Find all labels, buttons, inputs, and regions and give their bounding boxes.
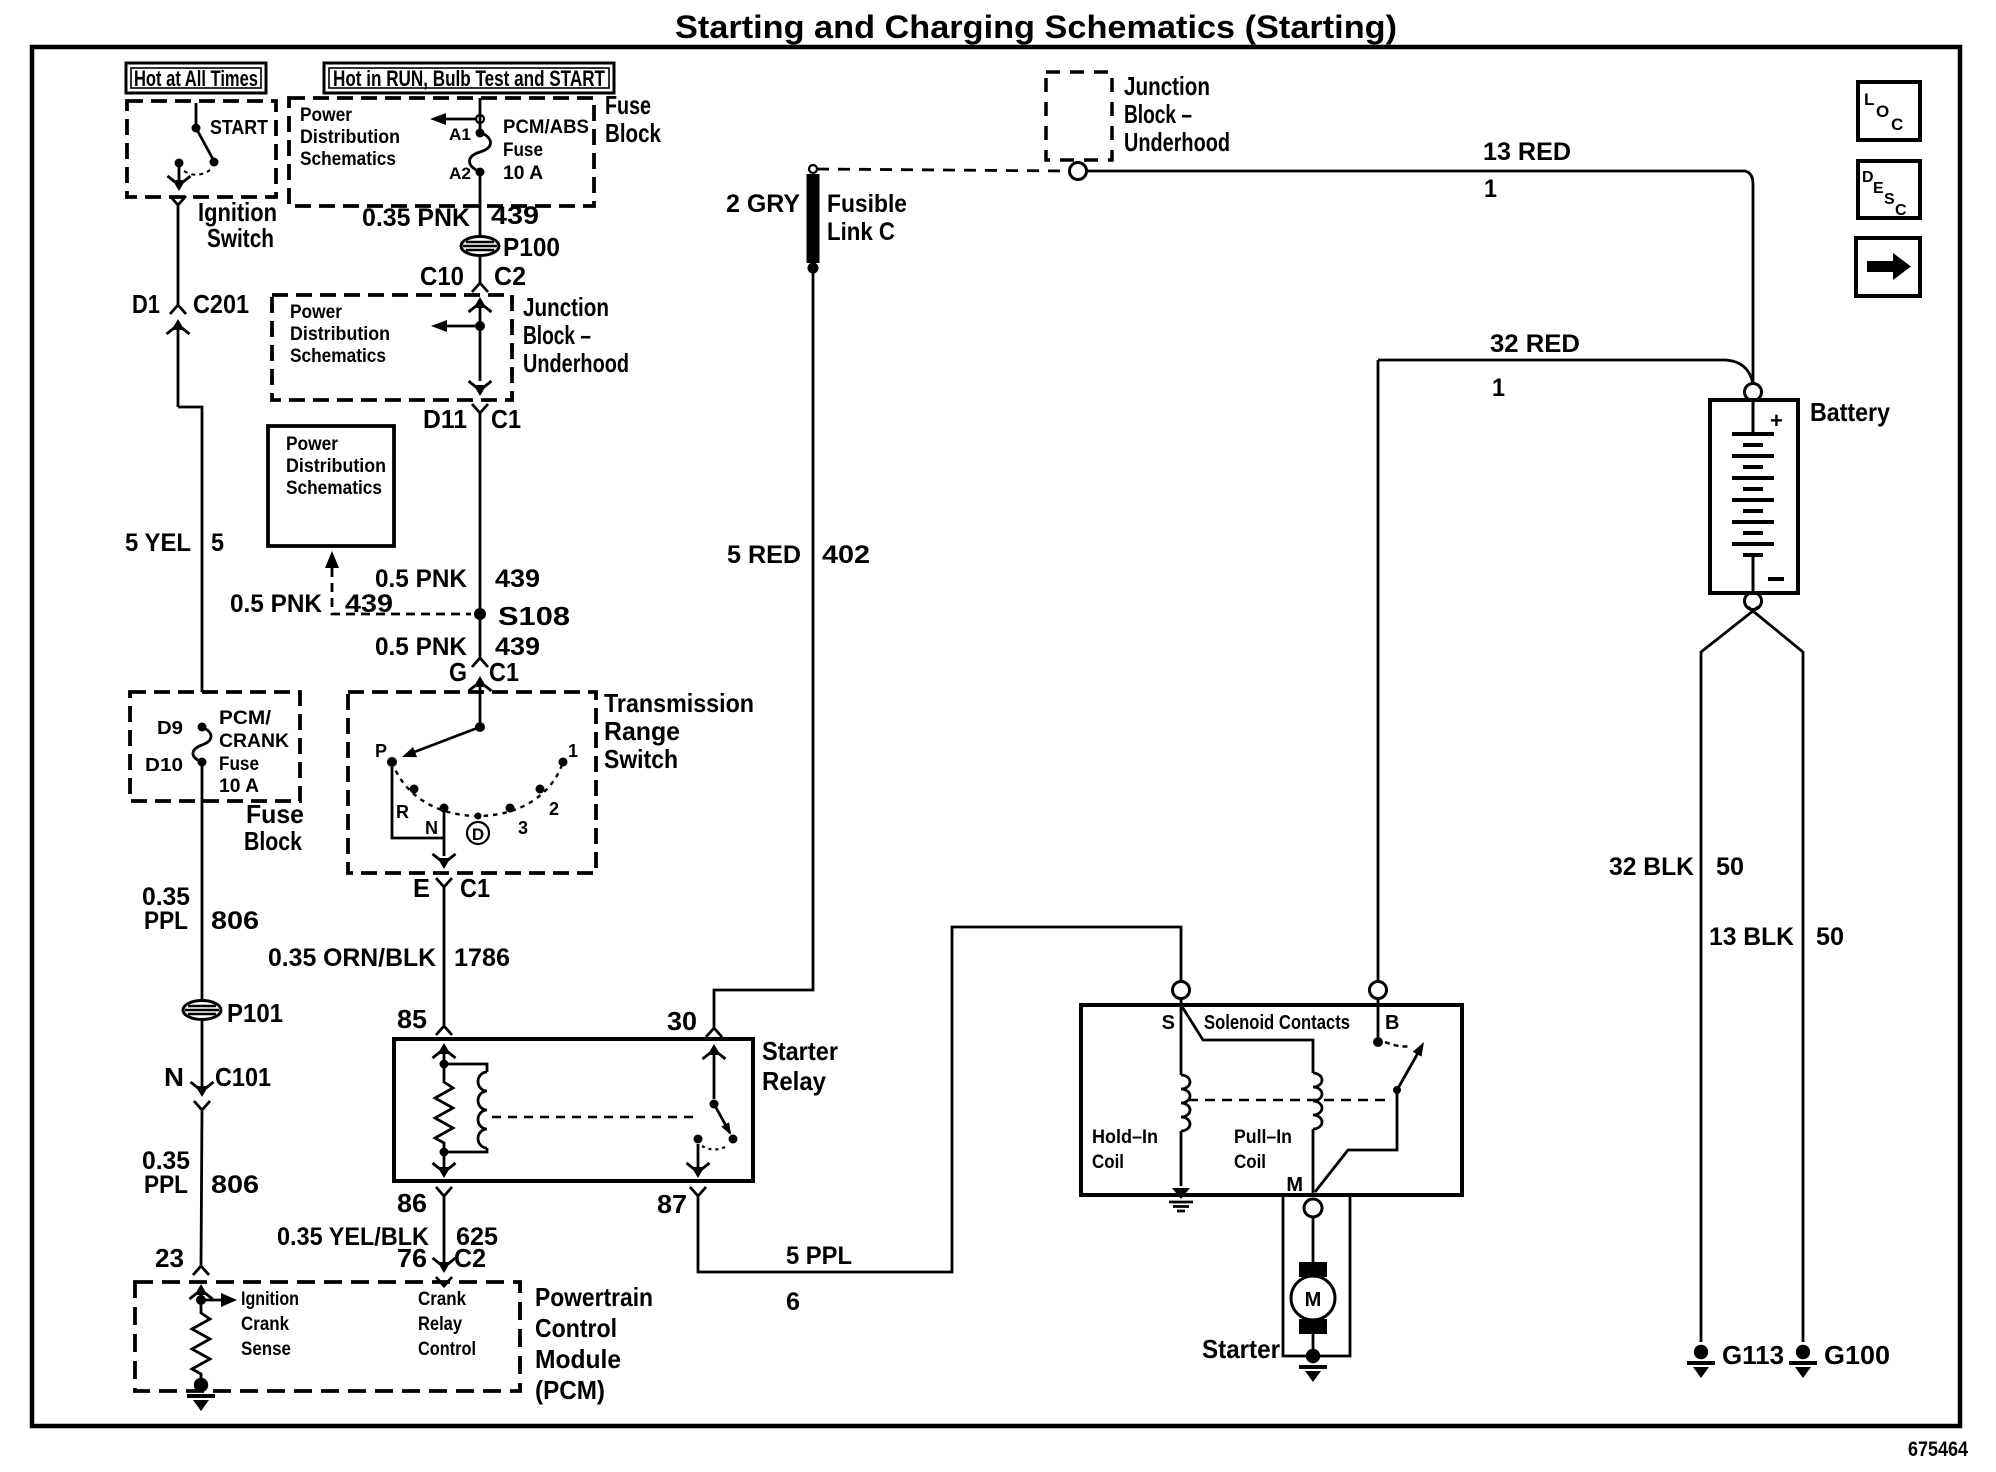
ignition switch output pin arrow bbox=[168, 167, 191, 191]
svg-text:Block: Block bbox=[605, 118, 661, 148]
Junction Block Underhood label (top) bbox=[1124, 71, 1230, 157]
junction block underhood box (left) bbox=[272, 295, 512, 400]
LOC box bbox=[1858, 82, 1920, 140]
ground G100 bbox=[1789, 1340, 1890, 1378]
Ignition Switch label bbox=[198, 197, 277, 253]
svg-text:Coil: Coil bbox=[1234, 1152, 1266, 1173]
svg-text:E: E bbox=[1873, 180, 1884, 197]
svg-text:Control: Control bbox=[535, 1313, 617, 1343]
solenoid contacts box bbox=[1081, 1005, 1462, 1195]
connector C201 bbox=[167, 305, 190, 407]
svg-text:PCM/ABS: PCM/ABS bbox=[503, 117, 589, 138]
solenoid switch B contact bbox=[1373, 1037, 1428, 1094]
svg-text:+: + bbox=[1770, 408, 1783, 433]
svg-text:Block –: Block – bbox=[523, 320, 591, 350]
svg-text:C: C bbox=[1891, 115, 1903, 134]
svg-text:5 PPL: 5 PPL bbox=[786, 1242, 852, 1270]
connector below ignition switch bbox=[170, 196, 186, 205]
svg-text:5 YEL: 5 YEL bbox=[125, 529, 191, 557]
solenoid dashed actuator line bbox=[1188, 1099, 1390, 1101]
svg-text:E: E bbox=[413, 873, 430, 903]
wire P101 down bbox=[201, 1019, 204, 1086]
svg-text:0.35 PNK: 0.35 PNK bbox=[362, 204, 470, 232]
svg-text:Relay: Relay bbox=[762, 1066, 826, 1096]
svg-text:C1: C1 bbox=[460, 873, 490, 903]
connector pin 76 bbox=[433, 1258, 456, 1286]
svg-text:G: G bbox=[449, 657, 467, 687]
dashed branch wire up into solid box bbox=[325, 551, 471, 614]
wire S108 down bbox=[479, 553, 482, 658]
svg-text:Power: Power bbox=[300, 105, 353, 126]
wire 13 RED bbox=[1086, 171, 1753, 384]
terminal M bbox=[1286, 1174, 1322, 1217]
svg-text:A1: A1 bbox=[449, 125, 471, 144]
svg-text:Schematics: Schematics bbox=[290, 346, 386, 367]
svg-text:2: 2 bbox=[549, 799, 559, 819]
svg-text:1: 1 bbox=[1484, 175, 1497, 203]
wire through D9 fuse down to P101 bbox=[201, 762, 204, 1001]
svg-text:76: 76 bbox=[397, 1243, 427, 1273]
svg-text:0.5 PNK: 0.5 PNK bbox=[375, 565, 467, 593]
relay switch pin 30 bbox=[710, 1054, 738, 1144]
svg-text:D1: D1 bbox=[132, 289, 160, 319]
splice P101 bbox=[183, 998, 283, 1028]
connector pin 23 bbox=[190, 1266, 213, 1300]
svg-text:Fuse: Fuse bbox=[246, 799, 304, 829]
svg-text:Solenoid Contacts: Solenoid Contacts bbox=[1204, 1012, 1350, 1034]
svg-text:32 RED: 32 RED bbox=[1490, 330, 1580, 358]
svg-text:D: D bbox=[1862, 169, 1874, 186]
svg-text:Hot in RUN, Bulb Test and STAR: Hot in RUN, Bulb Test and START bbox=[333, 66, 605, 91]
svg-text:PPL: PPL bbox=[144, 1171, 188, 1199]
ignition switch START contact bbox=[175, 103, 269, 175]
svg-text:A2: A2 bbox=[449, 164, 471, 183]
wire ignition to C201 bbox=[177, 205, 180, 305]
starter ground bbox=[1299, 1349, 1327, 1382]
wire A2 down to P100 bbox=[479, 172, 482, 236]
PCM internal resistor bbox=[192, 1300, 210, 1380]
svg-text:M: M bbox=[1286, 1174, 1303, 1196]
power distribution schematics solid box bbox=[268, 426, 394, 546]
svg-text:G113: G113 bbox=[1722, 1340, 1784, 1370]
svg-text:Switch: Switch bbox=[604, 744, 678, 774]
Fuse Block label (lower) bbox=[244, 799, 304, 856]
label 2 GRY / Fusible Link C bbox=[726, 190, 907, 246]
svg-text:10 A: 10 A bbox=[219, 776, 259, 797]
svg-text:S108: S108 bbox=[498, 601, 570, 631]
label 0.35 PPL 806 (upper) bbox=[142, 883, 259, 935]
node 76 C2 labels bbox=[397, 1243, 486, 1273]
svg-text:Underhood: Underhood bbox=[1124, 127, 1230, 157]
svg-text:5: 5 bbox=[211, 529, 224, 557]
forward arrow box bbox=[1856, 238, 1920, 296]
svg-text:85: 85 bbox=[397, 1004, 427, 1034]
label 0.35 YEL/BLK 625 bbox=[277, 1223, 498, 1251]
label 13 BLK 50 bbox=[1709, 923, 1844, 951]
node C10 C2 labels bbox=[420, 261, 526, 291]
svg-text:C10: C10 bbox=[420, 261, 464, 291]
svg-text:C201: C201 bbox=[193, 289, 249, 319]
svg-text:402: 402 bbox=[822, 541, 870, 569]
svg-text:N: N bbox=[164, 1062, 184, 1092]
svg-text:P101: P101 bbox=[227, 998, 283, 1028]
connector D11 C1 bbox=[472, 404, 488, 553]
svg-text:D11: D11 bbox=[423, 404, 467, 434]
junction block underhood box (top middle) bbox=[1046, 72, 1112, 160]
TRS P to N wire and exit bbox=[392, 767, 456, 869]
pull-in coil bbox=[1181, 1005, 1322, 1195]
TRS wiper node bbox=[400, 722, 485, 762]
PCM box bbox=[135, 1282, 520, 1391]
label 0.35 PNK 439 bbox=[362, 202, 539, 232]
svg-text:L: L bbox=[1864, 90, 1874, 109]
svg-text:PPL: PPL bbox=[144, 907, 188, 935]
ground G113 bbox=[1687, 1340, 1784, 1378]
label box Hot at All Times bbox=[126, 63, 266, 93]
battery bbox=[1710, 384, 1890, 610]
svg-text:Link C: Link C bbox=[827, 218, 895, 246]
connector pin 87 bbox=[690, 927, 1181, 1272]
Powertrain Control Module (PCM) label bbox=[535, 1282, 653, 1405]
svg-text:P100: P100 bbox=[503, 232, 560, 262]
ignition crank sense node and right arrow bbox=[196, 1293, 237, 1307]
svg-text:Crank: Crank bbox=[418, 1289, 466, 1310]
svg-text:439: 439 bbox=[345, 590, 393, 618]
svg-text:START: START bbox=[210, 117, 268, 139]
svg-text:Block: Block bbox=[244, 826, 302, 856]
dashed wire fusible link to junction circle bbox=[817, 169, 1068, 171]
svg-text:D10: D10 bbox=[145, 755, 183, 775]
svg-text:PCM/: PCM/ bbox=[219, 708, 272, 729]
Hold-In Coil text bbox=[1092, 1127, 1158, 1173]
label 13 RED 1 bbox=[1483, 138, 1571, 203]
svg-text:Relay: Relay bbox=[418, 1314, 462, 1335]
Crank Relay Control text bbox=[418, 1289, 476, 1360]
svg-text:C101: C101 bbox=[215, 1062, 271, 1092]
svg-text:P: P bbox=[375, 741, 387, 761]
svg-text:D9: D9 bbox=[157, 718, 183, 738]
svg-text:Starter: Starter bbox=[762, 1036, 838, 1066]
junction block internal node and left arrow bbox=[431, 320, 485, 332]
relay resistor bbox=[435, 1064, 453, 1157]
svg-text:439: 439 bbox=[495, 565, 540, 593]
terminal S bbox=[1162, 982, 1190, 1035]
svg-text:CRANK: CRANK bbox=[219, 731, 289, 752]
svg-text:Distribution: Distribution bbox=[300, 127, 400, 148]
svg-text:Power: Power bbox=[286, 434, 339, 455]
svg-text:R: R bbox=[396, 802, 409, 822]
svg-text:Fuse: Fuse bbox=[605, 90, 651, 120]
fuse block box (top) bbox=[289, 98, 594, 206]
terminal B bbox=[1370, 982, 1400, 1038]
svg-text:Transmission: Transmission bbox=[604, 688, 754, 718]
svg-text:1786: 1786 bbox=[454, 944, 510, 972]
Fuse Block label (top right) bbox=[605, 90, 661, 148]
relay dashed actuator line bbox=[492, 1116, 700, 1118]
svg-text:C1: C1 bbox=[491, 404, 521, 434]
svg-text:0.5 PNK: 0.5 PNK bbox=[230, 590, 322, 618]
label 0.5 PNK 439 (below S108) bbox=[375, 633, 540, 661]
svg-text:Sense: Sense bbox=[241, 1339, 291, 1360]
svg-text:Fuse: Fuse bbox=[503, 140, 543, 161]
solenoid switch arm to M bbox=[1315, 1090, 1397, 1192]
svg-text:Schematics: Schematics bbox=[300, 149, 396, 170]
transmission range switch box bbox=[348, 692, 596, 873]
svg-text:M: M bbox=[1305, 1289, 1322, 1311]
label box Hot in RUN, Bulb Test and START bbox=[324, 63, 614, 93]
junction node circle bbox=[1070, 163, 1087, 180]
Pull-In Coil text bbox=[1234, 1127, 1292, 1173]
connector E C1 bbox=[436, 878, 452, 1026]
svg-text:Junction: Junction bbox=[1124, 71, 1210, 101]
svg-text:439: 439 bbox=[491, 202, 539, 230]
svg-text:806: 806 bbox=[211, 907, 259, 935]
svg-text:Starting and Charging Schemati: Starting and Charging Schematics (Starti… bbox=[675, 9, 1397, 45]
svg-text:Module: Module bbox=[535, 1344, 621, 1374]
Power Distribution Schematics text (junction block) bbox=[290, 302, 390, 367]
relay switch contact 87 bbox=[687, 1135, 728, 1179]
splice S108 bbox=[474, 601, 570, 631]
Starter Relay label bbox=[762, 1036, 838, 1096]
svg-text:Range: Range bbox=[604, 716, 680, 746]
svg-text:Fuse: Fuse bbox=[219, 754, 259, 775]
svg-text:Coil: Coil bbox=[1092, 1152, 1124, 1173]
TRS contacts P R N D 3 2 1 bbox=[375, 741, 397, 767]
svg-text:C2: C2 bbox=[454, 1243, 486, 1273]
fuse PCM/ABS with pins A1 A2 bbox=[449, 125, 491, 183]
DESC box bbox=[1858, 161, 1920, 219]
node D1 C201 labels bbox=[132, 289, 249, 319]
svg-text:O: O bbox=[1876, 102, 1889, 121]
svg-text:32 BLK: 32 BLK bbox=[1609, 853, 1694, 881]
svg-text:87: 87 bbox=[657, 1189, 687, 1219]
PCM/ABS Fuse 10 A text bbox=[503, 117, 589, 184]
hold-in coil ground bbox=[1169, 1188, 1193, 1211]
svg-text:S: S bbox=[1884, 191, 1895, 208]
Junction Block Underhood label bbox=[523, 292, 629, 378]
splice P100 bbox=[461, 232, 560, 262]
svg-text:806: 806 bbox=[211, 1171, 259, 1199]
PCM ground bbox=[187, 1378, 215, 1411]
svg-text:B: B bbox=[1385, 1012, 1399, 1034]
label 0.35 ORN/BLK 1786 bbox=[268, 944, 510, 972]
svg-text:1: 1 bbox=[568, 741, 578, 761]
svg-text:50: 50 bbox=[1816, 923, 1844, 951]
starter housing frame bbox=[1283, 1195, 1350, 1356]
svg-text:Distribution: Distribution bbox=[286, 456, 386, 477]
svg-text:(PCM): (PCM) bbox=[535, 1375, 605, 1405]
label 5 RED 402 bbox=[727, 541, 870, 569]
wire jog left column bbox=[178, 407, 202, 692]
svg-text:3: 3 bbox=[518, 818, 528, 838]
hold-in coil bbox=[1181, 998, 1190, 1186]
ignition switch box bbox=[127, 101, 276, 197]
connector G C1 bbox=[469, 658, 492, 722]
svg-text:Powertrain: Powertrain bbox=[535, 1282, 653, 1312]
relay coil pin 86 arrow bbox=[433, 1152, 456, 1178]
svg-text:N: N bbox=[425, 818, 438, 838]
battery negative crossed wires bbox=[1701, 607, 1758, 1342]
node G C1 labels bbox=[449, 657, 519, 687]
svg-text:Starter: Starter bbox=[1202, 1334, 1280, 1364]
TRS contact arc dashed bbox=[392, 762, 563, 816]
svg-text:13 RED: 13 RED bbox=[1483, 138, 1571, 166]
svg-text:2 GRY: 2 GRY bbox=[726, 190, 800, 218]
connector pin 85 bbox=[433, 1026, 456, 1064]
label 0.35 PPL 806 (lower) bbox=[142, 1147, 259, 1199]
Power Distribution Schematics text (fuse block) bbox=[300, 105, 400, 170]
svg-text:G100: G100 bbox=[1824, 1340, 1890, 1370]
label 5 PPL 6 bbox=[786, 1242, 852, 1316]
svg-text:86: 86 bbox=[397, 1188, 427, 1218]
svg-text:Power: Power bbox=[290, 302, 343, 323]
svg-text:Crank: Crank bbox=[241, 1314, 289, 1335]
connector pin 86 bbox=[436, 1187, 452, 1262]
svg-text:10 A: 10 A bbox=[503, 163, 543, 184]
svg-text:C: C bbox=[1895, 202, 1907, 219]
connector C10 C2 bbox=[469, 283, 492, 326]
svg-text:6: 6 bbox=[786, 1288, 800, 1316]
label 5 YEL 5 bbox=[125, 529, 224, 557]
svg-text:23: 23 bbox=[155, 1243, 184, 1273]
label 32 BLK 50 bbox=[1609, 853, 1744, 881]
fuse block box D9 D10 bbox=[130, 692, 300, 801]
svg-text:Switch: Switch bbox=[207, 223, 274, 253]
svg-text:Hot at All Times: Hot at All Times bbox=[134, 66, 258, 91]
starter motor bbox=[1291, 1217, 1335, 1356]
relay coil branch bbox=[440, 1060, 488, 1153]
svg-text:S: S bbox=[1162, 1012, 1175, 1034]
wire P100 down bbox=[479, 255, 482, 283]
svg-text:Battery: Battery bbox=[1810, 397, 1890, 427]
svg-text:Underhood: Underhood bbox=[523, 348, 629, 378]
branch arrow left with node circle bbox=[430, 113, 484, 125]
svg-text:Distribution: Distribution bbox=[290, 324, 390, 345]
wire 5 RED from fusible link to pin 30 bbox=[714, 268, 813, 1028]
svg-text:Block –: Block – bbox=[1124, 99, 1192, 129]
label 0.5 PNK 439 (above S108) bbox=[375, 565, 540, 593]
svg-text:1: 1 bbox=[1492, 374, 1505, 402]
svg-text:Schematics: Schematics bbox=[286, 478, 382, 499]
svg-text:30: 30 bbox=[667, 1006, 697, 1036]
Ignition Crank Sense text bbox=[241, 1289, 299, 1360]
svg-text:Pull–In: Pull–In bbox=[1234, 1127, 1292, 1148]
label 0.5 PNK 439 (dashed branch) bbox=[230, 590, 393, 618]
svg-text:0.35 ORN/BLK: 0.35 ORN/BLK bbox=[268, 944, 436, 972]
svg-text:C2: C2 bbox=[494, 261, 526, 291]
fusible link C bbox=[808, 165, 819, 274]
junction block wire down with arrow bbox=[469, 326, 492, 396]
connector N C101 bbox=[191, 1082, 214, 1266]
svg-text:13 BLK: 13 BLK bbox=[1709, 923, 1794, 951]
svg-text:5 RED: 5 RED bbox=[727, 541, 801, 569]
svg-text:675464: 675464 bbox=[1908, 1438, 1968, 1461]
svg-text:Control: Control bbox=[418, 1339, 476, 1360]
wire into fuse block from top bbox=[479, 98, 482, 129]
fuse PCM/CRANK with pins D9 D10 bbox=[145, 718, 211, 775]
svg-text:50: 50 bbox=[1716, 853, 1744, 881]
label 32 RED 1 bbox=[1490, 330, 1580, 402]
connector pin 30 bbox=[703, 1028, 726, 1059]
svg-text:Ignition: Ignition bbox=[241, 1289, 299, 1310]
Transmission Range Switch label bbox=[604, 688, 754, 774]
svg-text:Junction: Junction bbox=[523, 292, 609, 322]
PCM/CRANK Fuse 10 A text bbox=[219, 708, 289, 797]
starter relay box bbox=[394, 1039, 753, 1181]
svg-text:C1: C1 bbox=[489, 657, 519, 687]
svg-text:D: D bbox=[472, 825, 484, 844]
svg-text:Hold–In: Hold–In bbox=[1092, 1127, 1158, 1148]
svg-text:Fusible: Fusible bbox=[827, 190, 907, 218]
wire 32 RED bbox=[1378, 360, 1753, 384]
